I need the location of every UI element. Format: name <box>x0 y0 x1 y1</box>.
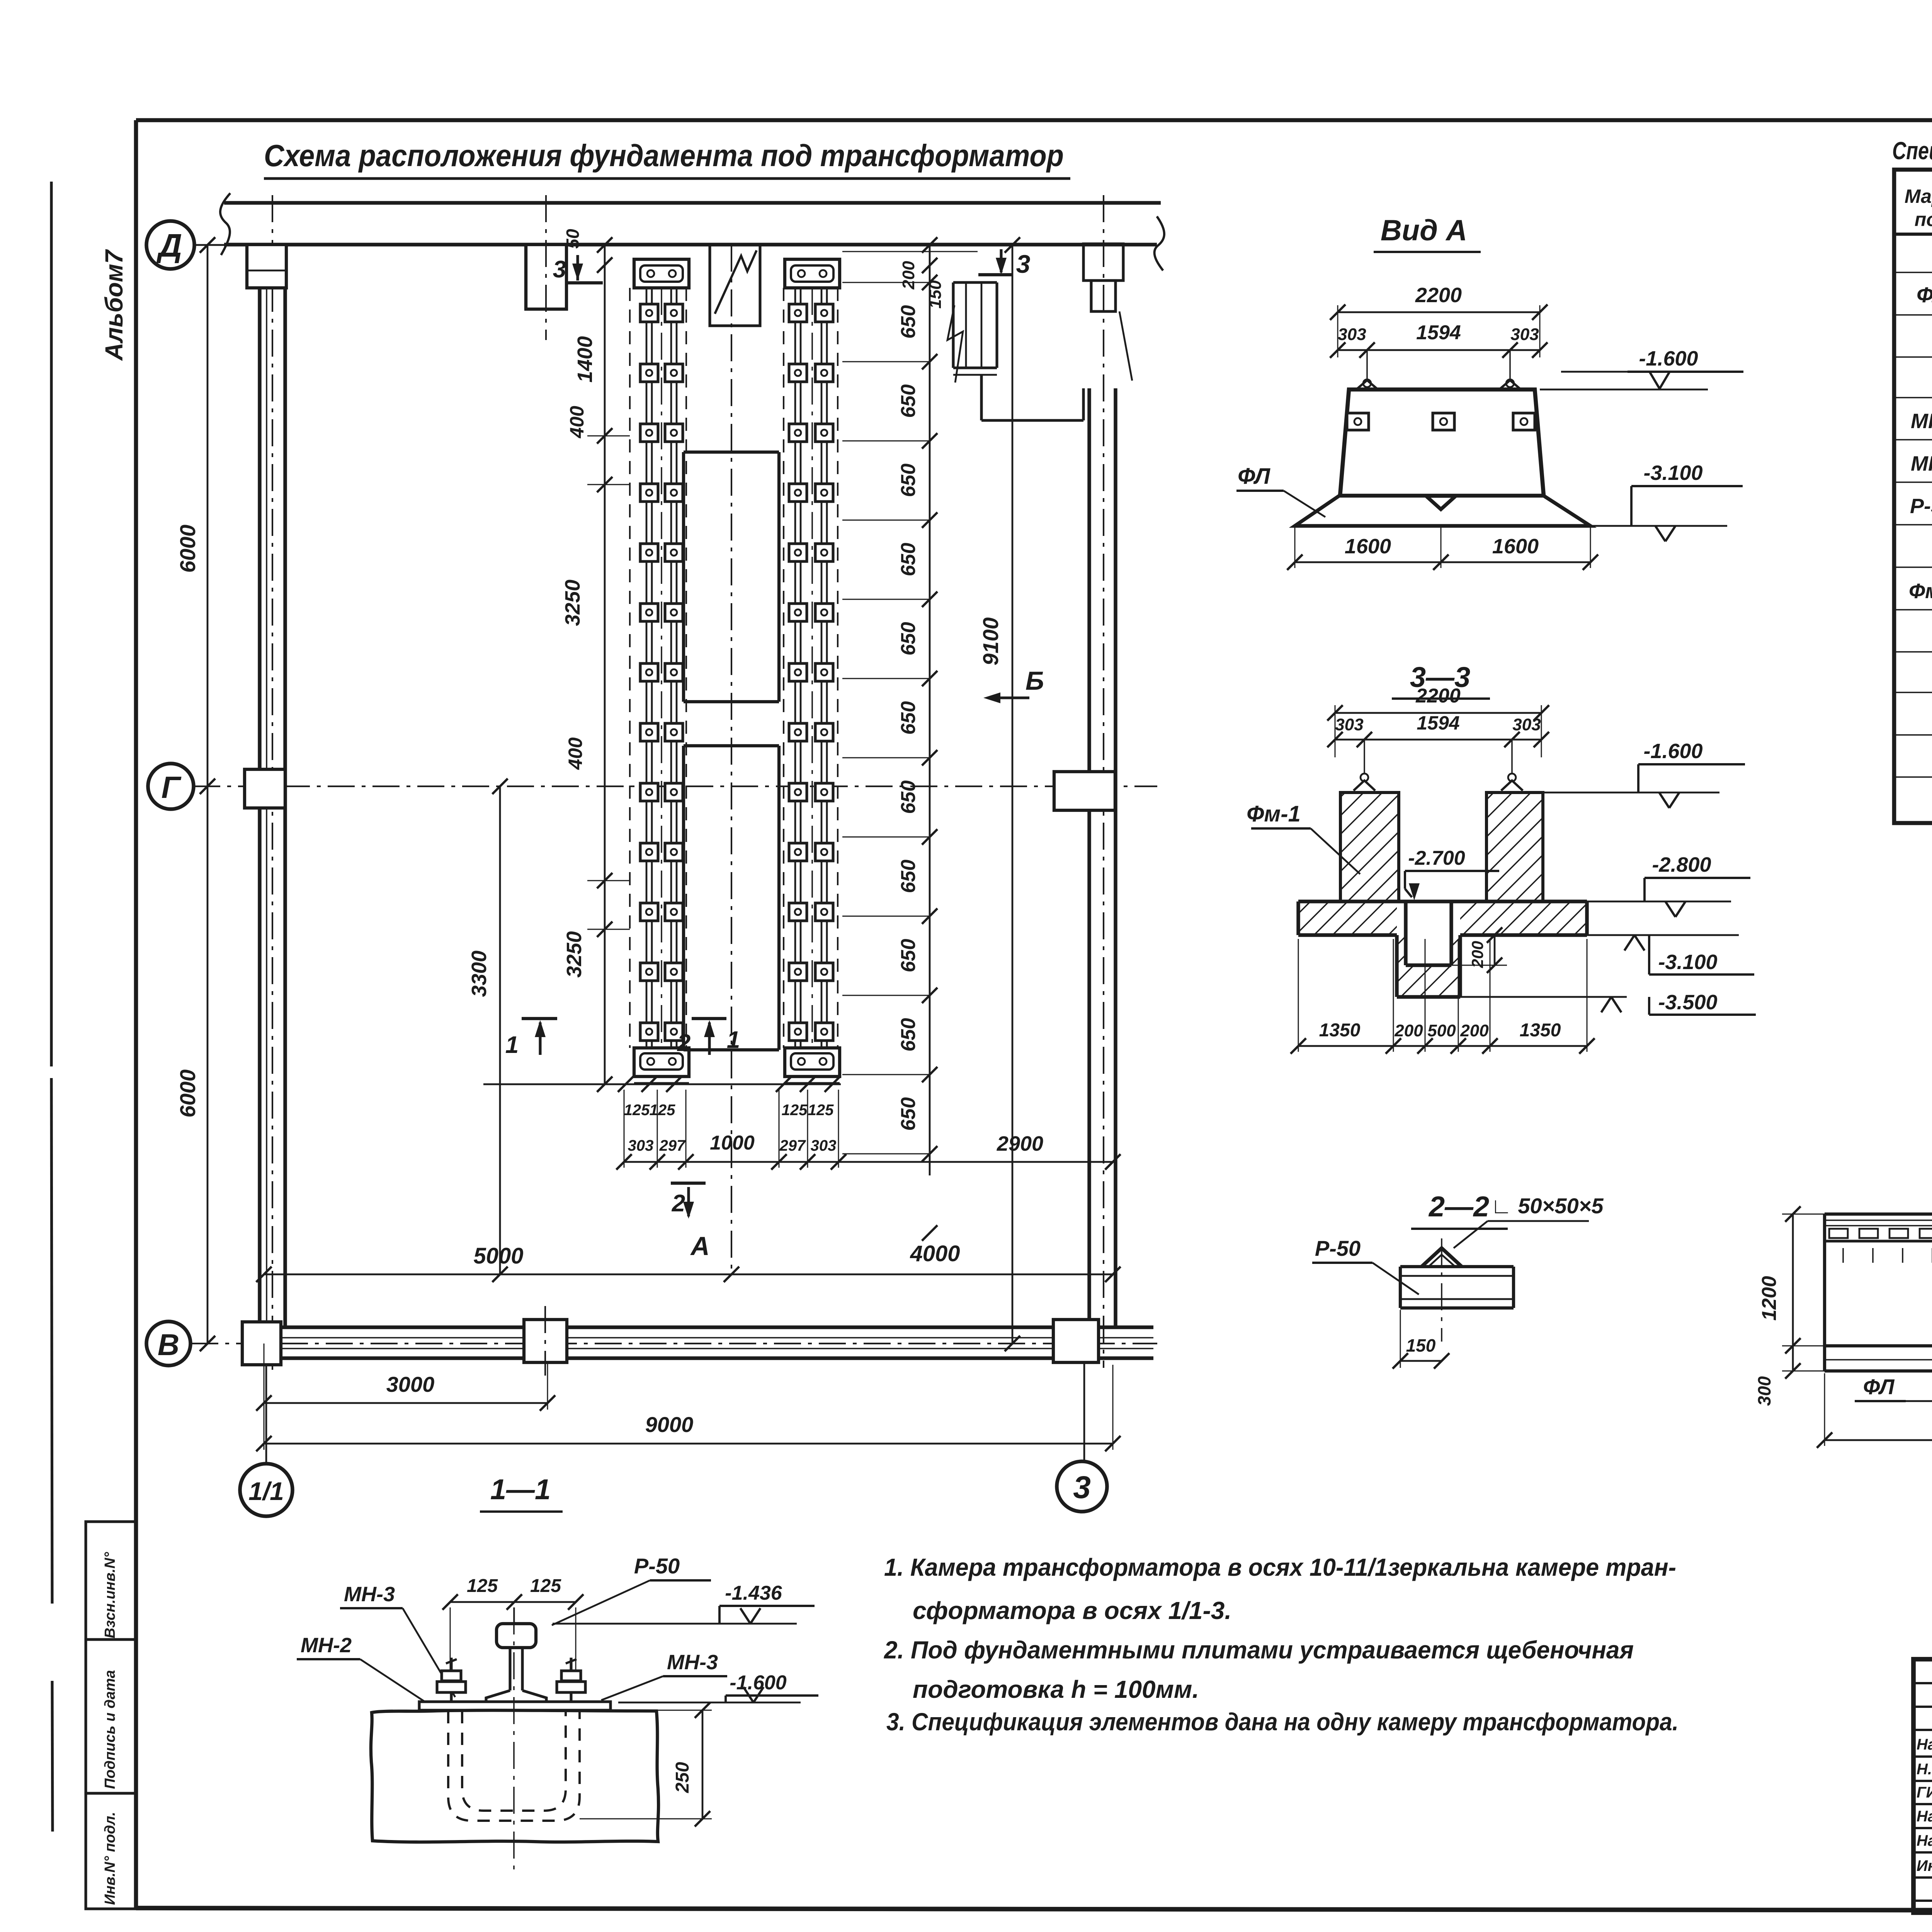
svg-text:В: В <box>158 1328 179 1362</box>
svg-text:300: 300 <box>1754 1376 1774 1406</box>
svg-text:ГИПстр.: ГИПстр. <box>1917 1784 1932 1801</box>
svg-text:3000: 3000 <box>386 1372 435 1396</box>
svg-text:МН-2: МН-2 <box>301 1634 352 1657</box>
svg-text:3: 3 <box>1016 250 1031 278</box>
svg-text:150: 150 <box>1406 1335 1436 1355</box>
svg-text:303: 303 <box>1512 715 1541 734</box>
svg-text:Нач.гр.: Нач.гр. <box>1917 1832 1932 1849</box>
svg-text:ФЛ: ФЛ <box>1863 1374 1895 1399</box>
svg-text:2. Под фундаментными плитами у: 2. Под фундаментными плитами устраиваетс… <box>884 1636 1634 1664</box>
svg-text:650: 650 <box>897 622 920 656</box>
svg-text:2: 2 <box>672 1190 685 1217</box>
svg-text:650: 650 <box>897 464 920 497</box>
svg-text:6000: 6000 <box>175 1070 200 1118</box>
svg-text:Вид А: Вид А <box>1381 214 1467 247</box>
svg-text:МН-3: МН-3 <box>1911 452 1932 475</box>
svg-text:Марка,: Марка, <box>1905 185 1932 207</box>
svg-text:Взсн.инв.N°: Взсн.инв.N° <box>102 1552 118 1638</box>
svg-text:Подпись и дата: Подпись и дата <box>102 1670 118 1789</box>
svg-text:250: 250 <box>672 1762 693 1793</box>
svg-text:303: 303 <box>1338 325 1366 344</box>
svg-text:1000: 1000 <box>710 1132 755 1154</box>
svg-text:9100: 9100 <box>978 617 1003 666</box>
svg-text:2900: 2900 <box>997 1132 1043 1155</box>
svg-text:650: 650 <box>897 1018 920 1052</box>
svg-text:650: 650 <box>897 860 920 893</box>
svg-text:Б: Б <box>1026 666 1044 696</box>
svg-text:Фм-1: Фм-1 <box>1909 580 1932 603</box>
svg-text:3: 3 <box>553 256 566 283</box>
svg-text:650: 650 <box>897 305 920 339</box>
svg-text:303: 303 <box>811 1137 837 1154</box>
svg-text:-2.700: -2.700 <box>1408 847 1465 869</box>
svg-text:Фм-1: Фм-1 <box>1247 801 1301 827</box>
svg-text:-1.600: -1.600 <box>730 1672 787 1694</box>
svg-text:125: 125 <box>808 1102 834 1119</box>
svg-text:Схема расположения фундамента: Схема расположения фундамента под трансф… <box>264 138 1064 173</box>
svg-text:2: 2 <box>677 1030 690 1056</box>
svg-text:-3.100: -3.100 <box>1643 461 1702 485</box>
svg-text:125: 125 <box>782 1102 808 1119</box>
svg-text:ФЛ: ФЛ <box>1238 464 1270 489</box>
svg-text:Инв.N° подл.: Инв.N° подл. <box>102 1812 118 1905</box>
svg-text:-1.600: -1.600 <box>1643 740 1702 763</box>
svg-text:3250: 3250 <box>563 931 586 978</box>
svg-text:297: 297 <box>659 1137 686 1154</box>
svg-text:50: 50 <box>563 229 583 249</box>
svg-text:1—1: 1—1 <box>490 1473 551 1505</box>
svg-text:1/1: 1/1 <box>248 1477 284 1505</box>
svg-text:1: 1 <box>727 1027 740 1053</box>
svg-text:Н.контр: Н.контр <box>1917 1761 1932 1778</box>
svg-text:Р-50: Р-50 <box>634 1554 680 1578</box>
svg-text:А: А <box>690 1231 709 1261</box>
svg-text:125: 125 <box>530 1576 561 1596</box>
svg-text:150: 150 <box>926 280 945 309</box>
svg-text:подготовка h = 100мм.: подготовка h = 100мм. <box>913 1675 1199 1703</box>
svg-text:1400: 1400 <box>573 336 597 383</box>
svg-text:650: 650 <box>897 701 920 735</box>
svg-text:поз.: поз. <box>1915 209 1932 230</box>
svg-text:-2.800: -2.800 <box>1652 853 1711 876</box>
svg-text:ФЛ: ФЛ <box>1917 282 1932 307</box>
svg-text:Нач.отд: Нач.отд <box>1917 1736 1932 1753</box>
svg-text:1200: 1200 <box>1758 1276 1781 1321</box>
svg-text:125: 125 <box>624 1102 650 1119</box>
svg-text:303: 303 <box>1335 715 1363 734</box>
svg-text:303: 303 <box>628 1137 654 1154</box>
svg-text:5000: 5000 <box>473 1243 523 1269</box>
svg-text:-3.500: -3.500 <box>1658 991 1717 1014</box>
svg-text:МН-3: МН-3 <box>344 1583 395 1606</box>
svg-text:6000: 6000 <box>175 525 200 573</box>
svg-text:Инженер: Инженер <box>1917 1857 1932 1874</box>
svg-text:1. Камера трансформатора в о: 1. Камера трансформатора в осях 10-11/1з… <box>884 1553 1676 1581</box>
svg-text:3250: 3250 <box>561 580 584 626</box>
svg-text:Р-50: Р-50 <box>1910 495 1932 518</box>
svg-text:1600: 1600 <box>1345 535 1391 558</box>
svg-text:400: 400 <box>565 737 586 770</box>
svg-text:Г: Г <box>161 770 182 804</box>
svg-text:сформатора в осях 1/1-3.: сформатора в осях 1/1-3. <box>913 1597 1231 1624</box>
svg-text:-1.600: -1.600 <box>1639 347 1698 370</box>
svg-text:2200: 2200 <box>1415 685 1461 707</box>
svg-text:2—2: 2—2 <box>1428 1190 1489 1223</box>
svg-text:1594: 1594 <box>1416 321 1461 344</box>
svg-text:1600: 1600 <box>1492 535 1539 558</box>
svg-text:Спецификация элементов к схеме: Спецификация элементов к схеме расположе… <box>1892 137 1932 165</box>
svg-text:4000: 4000 <box>910 1241 960 1266</box>
svg-text:Альбом7: Альбом7 <box>100 249 128 361</box>
svg-text:650: 650 <box>897 543 920 577</box>
svg-text:650: 650 <box>897 1097 920 1131</box>
svg-text:400: 400 <box>566 406 588 439</box>
svg-text:125: 125 <box>467 1576 498 1596</box>
svg-text:297: 297 <box>779 1137 806 1154</box>
svg-text:∟ 50×50×5: ∟ 50×50×5 <box>1491 1194 1604 1218</box>
svg-text:3. Спецификация элементов дана: 3. Спецификация элементов дана на одну к… <box>886 1708 1679 1736</box>
svg-text:650: 650 <box>897 781 920 814</box>
svg-text:-1.436: -1.436 <box>725 1582 782 1604</box>
svg-text:3: 3 <box>1073 1470 1091 1505</box>
svg-text:1350: 1350 <box>1319 1020 1361 1041</box>
svg-text:3300: 3300 <box>468 951 491 997</box>
svg-text:200: 200 <box>1460 1021 1489 1040</box>
svg-text:-3.100: -3.100 <box>1658 951 1717 974</box>
svg-text:1594: 1594 <box>1417 712 1459 734</box>
svg-text:500: 500 <box>1427 1021 1456 1040</box>
svg-text:МН-2: МН-2 <box>1911 410 1932 433</box>
svg-text:Нач.гр.: Нач.гр. <box>1917 1808 1932 1825</box>
svg-text:200: 200 <box>899 261 918 290</box>
svg-text:Д: Д <box>156 227 182 264</box>
svg-text:200: 200 <box>1468 941 1486 968</box>
svg-text:303: 303 <box>1510 325 1539 344</box>
svg-text:1350: 1350 <box>1520 1020 1561 1041</box>
svg-text:МН-3: МН-3 <box>667 1651 718 1674</box>
svg-text:650: 650 <box>897 939 920 973</box>
svg-text:2200: 2200 <box>1415 284 1462 307</box>
svg-text:1: 1 <box>505 1032 519 1058</box>
svg-text:9000: 9000 <box>645 1412 694 1437</box>
svg-text:650: 650 <box>897 384 920 418</box>
svg-text:200: 200 <box>1394 1021 1423 1040</box>
svg-text:125: 125 <box>650 1102 675 1119</box>
svg-text:Р-50: Р-50 <box>1315 1236 1361 1260</box>
